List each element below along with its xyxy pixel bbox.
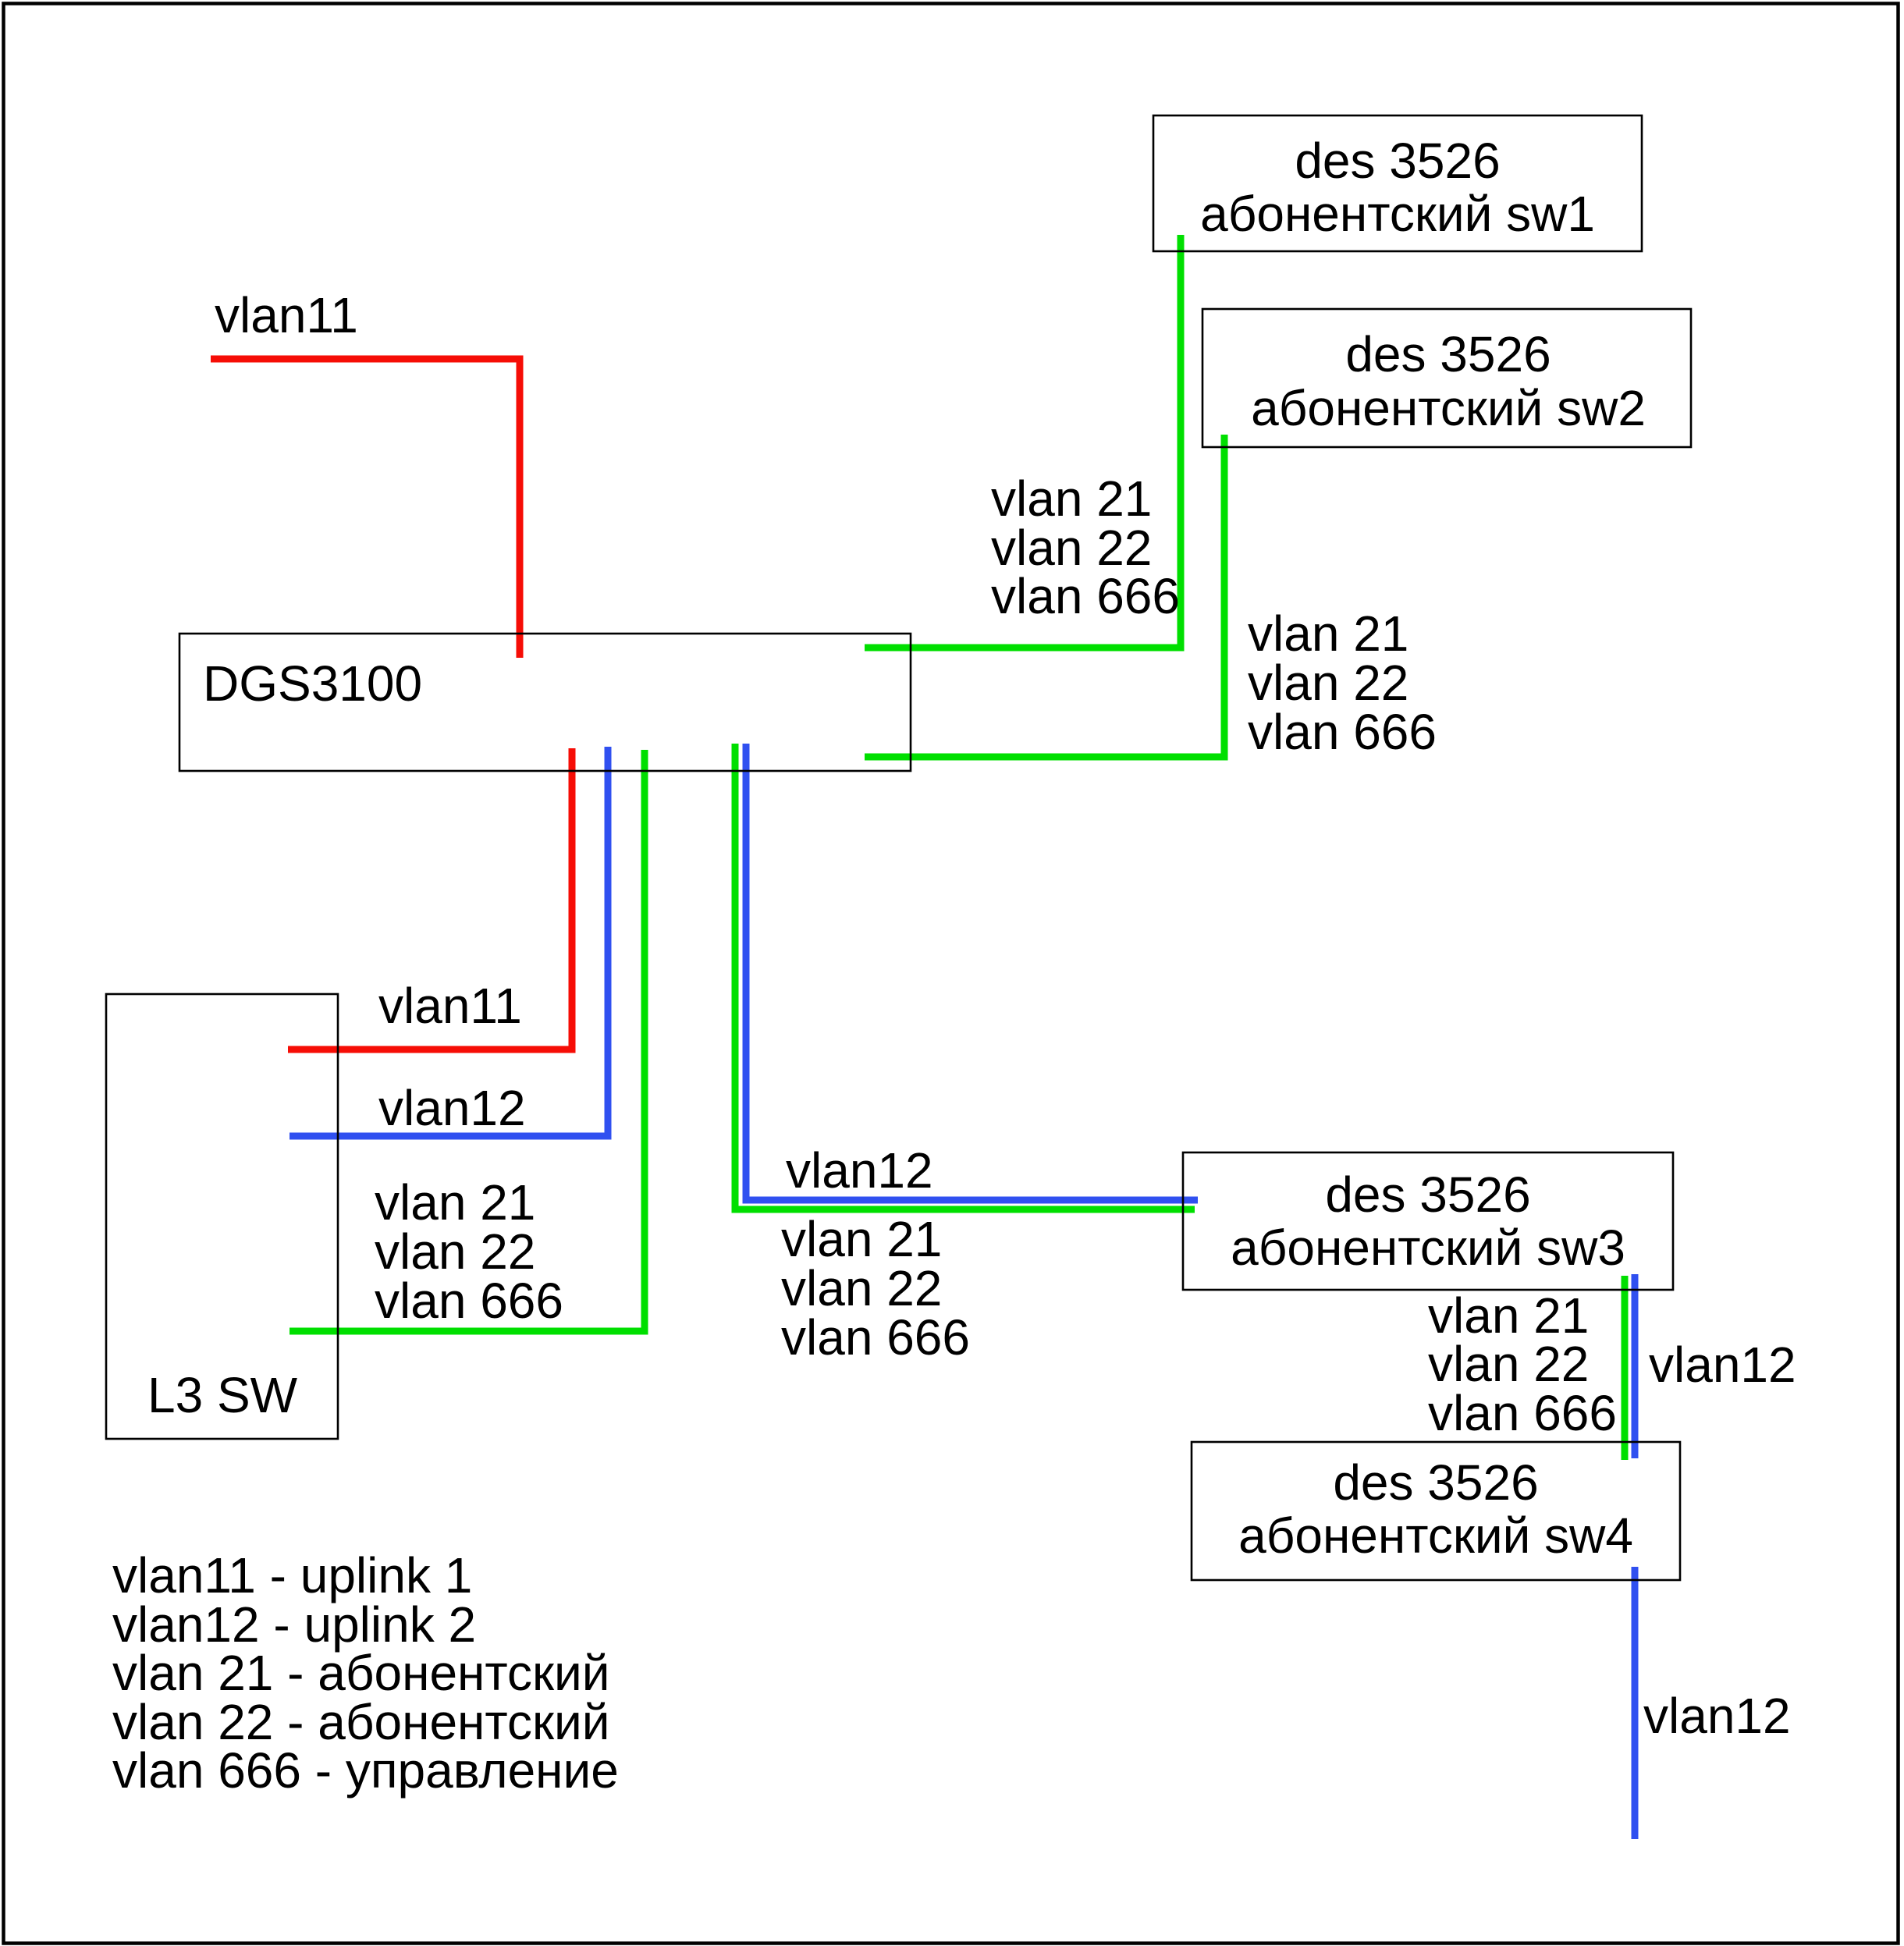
svg-text:vlan11 - uplink 1: vlan11 - uplink 1: [112, 1547, 472, 1603]
svg-text:vlan 666: vlan 666: [781, 1309, 970, 1365]
svg-text:vlan12: vlan12: [786, 1142, 933, 1198]
svg-text:абонентский sw4: абонентский sw4: [1238, 1507, 1633, 1564]
svg-text:абонентский sw3: абонентский sw3: [1231, 1220, 1625, 1276]
svg-text:vlan 22: vlan 22: [1248, 655, 1408, 711]
svg-text:vlan 666: vlan 666: [1248, 704, 1437, 760]
wire vlan21/22/666 green DGS3100 to sw1: [865, 235, 1181, 648]
svg-text:des 3526: des 3526: [1345, 326, 1551, 382]
svg-text:vlan 666: vlan 666: [1428, 1385, 1617, 1441]
svg-text:vlan12: vlan12: [1643, 1688, 1791, 1744]
svg-text:vlan 21: vlan 21: [1248, 605, 1408, 662]
wire vlan21/22/666 green DGS3100 to L3 SW: [290, 750, 645, 1331]
wire vlan12 blue DGS3100 to sw3: [746, 744, 1198, 1200]
svg-text:vlan 666 - управление: vlan 666 - управление: [112, 1742, 619, 1799]
svg-text:vlan11: vlan11: [215, 287, 358, 343]
wire vlan21/22/666 green DGS3100 to sw3: [735, 744, 1195, 1209]
svg-text:DGS3100: DGS3100: [203, 655, 422, 712]
svg-text:L3 SW: L3 SW: [147, 1367, 298, 1423]
svg-text:vlan 21: vlan 21: [375, 1174, 535, 1230]
svg-text:vlan 21 - абонентский: vlan 21 - абонентский: [112, 1645, 609, 1701]
svg-text:vlan 22: vlan 22: [781, 1260, 942, 1316]
wire vlan12 blue below sw4: [1632, 1567, 1639, 1839]
wire vlan11 red DGS3100 to L3 SW: [288, 748, 572, 1049]
svg-text:vlan11: vlan11: [378, 978, 522, 1034]
wire vlan21/22/666 green DGS3100 to sw2: [865, 435, 1224, 757]
switch DGS3100 box: [179, 634, 911, 771]
switch des3526 sw2 box: [1202, 309, 1691, 447]
switch des3526 sw1 box: [1153, 115, 1642, 251]
svg-text:des 3526: des 3526: [1333, 1454, 1538, 1511]
svg-text:абонентский sw2: абонентский sw2: [1251, 380, 1646, 436]
svg-text:des 3526: des 3526: [1325, 1167, 1530, 1223]
switch des3526 sw3 box: [1183, 1152, 1673, 1290]
switch L3 SW box: [106, 994, 338, 1439]
svg-text:vlan12: vlan12: [1649, 1337, 1796, 1393]
svg-text:vlan12: vlan12: [378, 1080, 526, 1136]
svg-text:vlan 666: vlan 666: [991, 568, 1180, 624]
switch des3526 sw4 box: [1192, 1442, 1680, 1580]
svg-text:vlan 22: vlan 22: [1428, 1336, 1589, 1392]
svg-text:абонентский sw1: абонентский sw1: [1200, 186, 1595, 242]
svg-text:vlan 21: vlan 21: [781, 1211, 942, 1267]
svg-text:des 3526: des 3526: [1295, 133, 1500, 189]
svg-text:vlan 666: vlan 666: [375, 1273, 563, 1329]
wire vlan12 blue sw3 to sw4: [1632, 1274, 1639, 1458]
wire vlan12 blue DGS3100 to L3 SW: [290, 747, 608, 1136]
wire green sw3 to sw4: [1622, 1276, 1629, 1460]
svg-text:vlan 22: vlan 22: [375, 1223, 535, 1280]
wire vlan11 red uplink to DGS3100 top: [211, 359, 520, 658]
svg-text:vlan 21: vlan 21: [991, 471, 1152, 527]
